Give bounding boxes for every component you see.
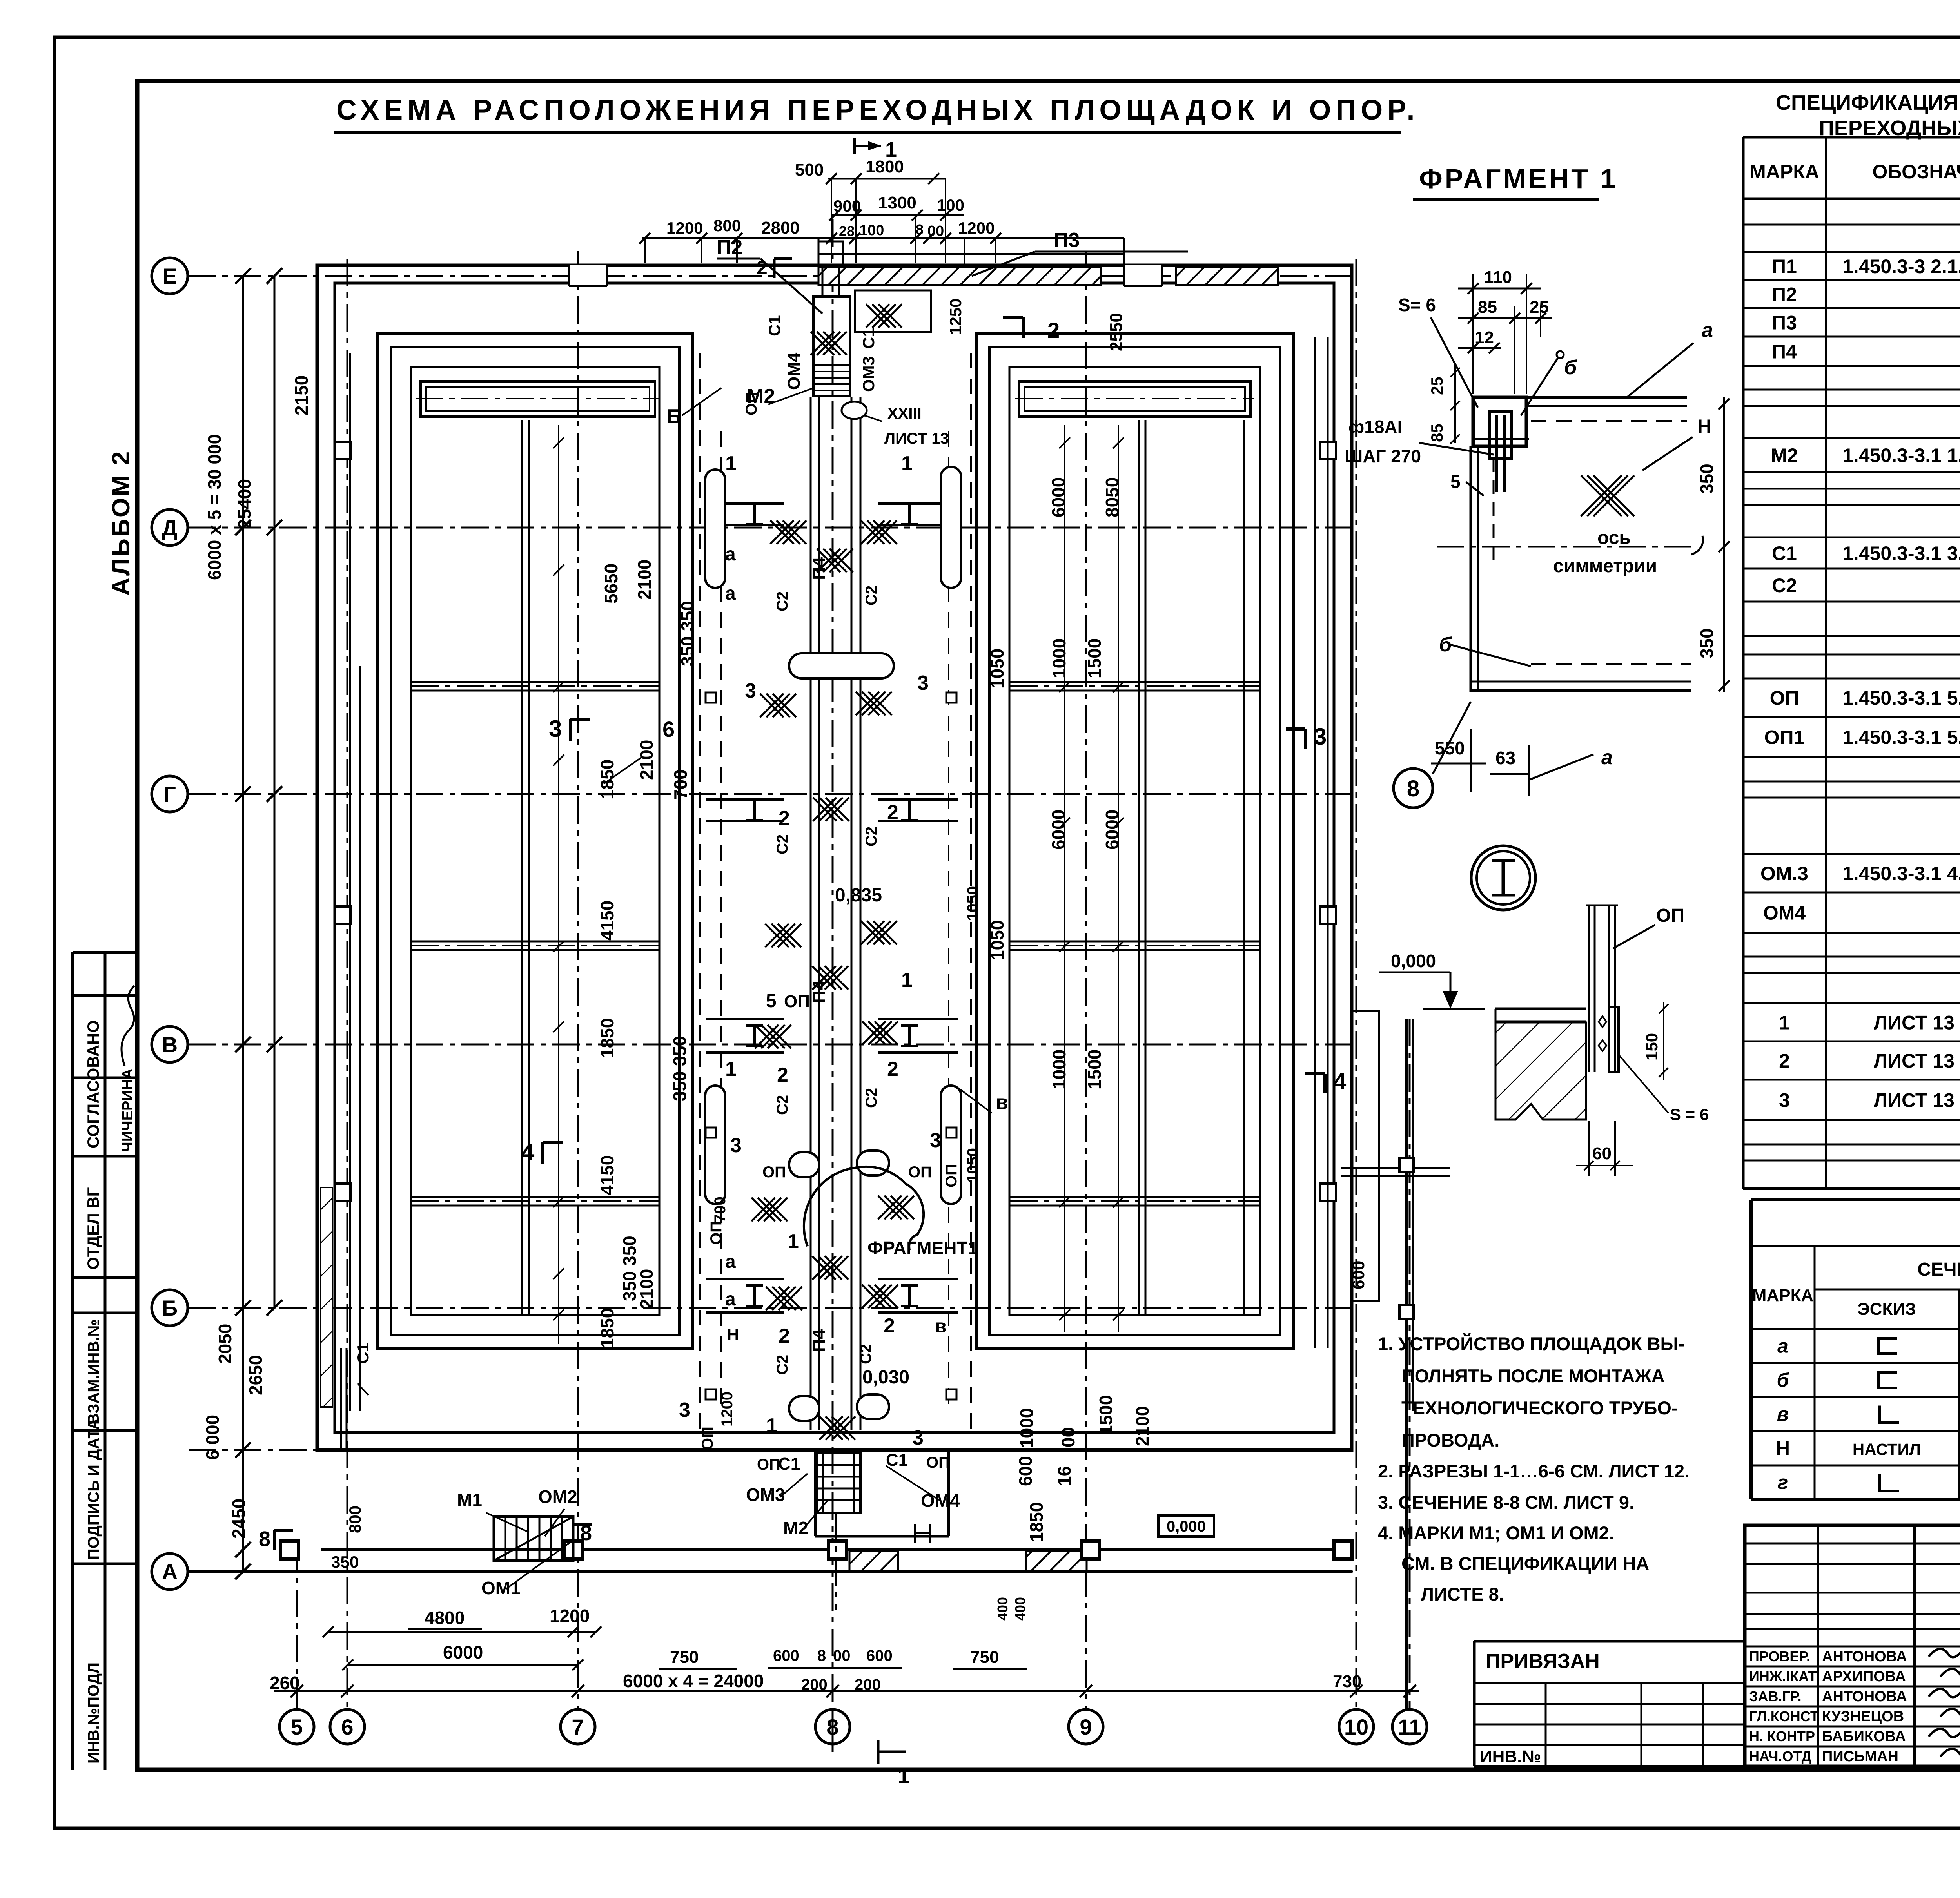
svg-text:730: 730 (1333, 1672, 1361, 1691)
svg-text:Б: Б (666, 405, 681, 428)
svg-text:ФРАГМЕНТ 1: ФРАГМЕНТ 1 (1419, 163, 1618, 194)
svg-text:С2: С2 (863, 827, 880, 847)
svg-text:ВЗАМ.ИНВ.№: ВЗАМ.ИНВ.№ (85, 1319, 102, 1425)
svg-text:а: а (1777, 1335, 1788, 1357)
svg-text:11: 11 (1398, 1715, 1421, 1739)
svg-text:2800: 2800 (761, 218, 800, 237)
svg-text:С2: С2 (863, 1088, 880, 1108)
svg-text:Н: Н (1776, 1438, 1790, 1459)
svg-text:ОМ1: ОМ1 (481, 1578, 521, 1598)
svg-text:ЭСКИЗ: ЭСКИЗ (1857, 1300, 1916, 1319)
svg-text:800: 800 (713, 216, 741, 235)
svg-text:00: 00 (833, 1647, 851, 1664)
svg-text:1200: 1200 (719, 1392, 736, 1427)
svg-text:1: 1 (901, 452, 913, 475)
svg-text:2: 2 (887, 1058, 898, 1080)
svg-text:1050: 1050 (987, 920, 1007, 960)
svg-text:С1: С1 (1772, 542, 1797, 564)
svg-text:а: а (1702, 319, 1713, 342)
svg-text:350: 350 (1697, 464, 1717, 494)
svg-text:600: 600 (773, 1647, 799, 1664)
svg-text:в: в (935, 1316, 947, 1337)
svg-text:25400: 25400 (234, 479, 255, 529)
svg-text:СОГЛАСОВАНО: СОГЛАСОВАНО (84, 1020, 102, 1148)
svg-text:Н: Н (727, 1325, 739, 1344)
svg-text:ОМ.3: ОМ.3 (1760, 863, 1808, 885)
svg-text:1200: 1200 (550, 1606, 590, 1626)
svg-text:С2: С2 (774, 1355, 791, 1375)
svg-text:1850: 1850 (1026, 1502, 1047, 1542)
svg-text:С2: С2 (857, 1344, 875, 1364)
svg-text:800: 800 (346, 1506, 364, 1533)
svg-text:1.450.3-3 2.1.1.0- 04: 1.450.3-3 2.1.1.0- 04 (1842, 256, 1960, 277)
svg-text:ОП: ОП (784, 992, 810, 1011)
svg-text:8050: 8050 (1102, 477, 1122, 517)
svg-text:П3: П3 (1054, 229, 1080, 252)
svg-text:2100: 2100 (1132, 1406, 1152, 1446)
svg-text:350: 350 (677, 636, 698, 666)
svg-text:3: 3 (930, 1129, 941, 1152)
svg-text:60: 60 (1592, 1144, 1612, 1163)
svg-text:ось: ось (1597, 528, 1631, 548)
svg-text:0,835: 0,835 (835, 885, 882, 906)
svg-text:г: г (1778, 1472, 1788, 1494)
svg-text:2550: 2550 (1107, 313, 1126, 351)
svg-text:350: 350 (331, 1553, 359, 1571)
svg-text:ЛИСТ 13: ЛИСТ 13 (1874, 1012, 1955, 1034)
svg-text:ГЛ.КОНСТ: ГЛ.КОНСТ (1749, 1708, 1819, 1724)
svg-text:ОП: ОП (762, 1164, 786, 1181)
svg-text:150: 150 (1642, 1033, 1661, 1060)
svg-text:П2: П2 (717, 236, 742, 259)
svg-text:ОП: ОП (708, 1221, 725, 1245)
svg-text:3. СЕЧЕНИЕ 8-8 СМ. ЛИСТ 9.: 3. СЕЧЕНИЕ 8-8 СМ. ЛИСТ 9. (1378, 1492, 1634, 1513)
svg-text:4: 4 (1333, 1068, 1347, 1095)
svg-text:3: 3 (1779, 1089, 1790, 1111)
svg-text:КУЗНЕЦОВ: КУЗНЕЦОВ (1822, 1708, 1904, 1725)
svg-text:63: 63 (1495, 748, 1515, 768)
svg-text:ОТДЕЛ ВГ: ОТДЕЛ ВГ (84, 1187, 102, 1270)
svg-text:Е: Е (162, 264, 177, 288)
svg-text:8: 8 (259, 1527, 270, 1551)
svg-text:350: 350 (619, 1236, 640, 1266)
svg-text:ИНВ.№ПОДЛ: ИНВ.№ПОДЛ (85, 1662, 102, 1764)
svg-text:С2: С2 (1772, 575, 1797, 596)
svg-text:2: 2 (777, 1064, 788, 1086)
svg-text:1050: 1050 (964, 886, 982, 921)
svg-text:НАСТИЛ: НАСТИЛ (1853, 1440, 1921, 1459)
svg-text:ПРОВЕР.: ПРОВЕР. (1749, 1648, 1810, 1664)
svg-text:ЧИЧЕРИНА: ЧИЧЕРИНА (120, 1068, 136, 1152)
svg-text:350: 350 (670, 1036, 690, 1066)
svg-text:100: 100 (859, 222, 884, 239)
svg-text:2: 2 (1779, 1050, 1790, 1072)
svg-text:1800: 1800 (866, 157, 904, 176)
svg-text:3: 3 (679, 1399, 690, 1421)
svg-text:350: 350 (619, 1271, 640, 1301)
svg-text:1.450.3-3.1 5.1.0.1.0: 1.450.3-3.1 5.1.0.1.0 (1842, 727, 1960, 749)
svg-text:S= 6: S= 6 (1398, 295, 1436, 315)
svg-text:СХЕМА РАСПОЛОЖЕНИЯ ПЕРЕХОДН: СХЕМА РАСПОЛОЖЕНИЯ ПЕРЕХОДНЫХ ПЛОЩАДОК И… (336, 94, 1419, 126)
svg-text:6: 6 (341, 1715, 353, 1739)
svg-text:В: В (162, 1032, 178, 1057)
svg-text:1: 1 (898, 1764, 909, 1788)
svg-text:1000: 1000 (1016, 1408, 1037, 1448)
svg-text:ОП1: ОП1 (1764, 727, 1805, 749)
svg-text:5: 5 (290, 1715, 303, 1739)
svg-text:1: 1 (1779, 1012, 1790, 1034)
svg-text:0,000: 0,000 (1167, 1518, 1206, 1535)
svg-text:500: 500 (795, 160, 824, 179)
svg-text:б: б (1777, 1369, 1790, 1391)
svg-text:б: б (1564, 356, 1577, 379)
svg-text:28: 28 (839, 223, 855, 239)
svg-text:XXIII: XXIII (887, 405, 922, 422)
svg-text:1: 1 (725, 452, 737, 475)
svg-text:700: 700 (670, 769, 691, 799)
svg-text:0,030: 0,030 (862, 1367, 909, 1388)
svg-text:С2: С2 (774, 834, 791, 854)
svg-text:1: 1 (766, 1414, 777, 1437)
svg-text:ПОЛНЯТЬ ПОСЛЕ МОНТАЖА: ПОЛНЯТЬ ПОСЛЕ МОНТАЖА (1401, 1365, 1665, 1386)
svg-text:1850: 1850 (597, 760, 617, 799)
svg-text:2150: 2150 (291, 375, 312, 415)
svg-text:ОМ4: ОМ4 (1763, 902, 1806, 924)
svg-text:б: б (1439, 633, 1452, 656)
svg-text:ТЕХНОЛОГИЧЕСКОГО ТРУБО-: ТЕХНОЛОГИЧЕСКОГО ТРУБО- (1401, 1398, 1678, 1418)
svg-text:00: 00 (1058, 1427, 1078, 1447)
svg-text:4800: 4800 (425, 1608, 465, 1628)
svg-text:ШАГ 270: ШАГ 270 (1345, 446, 1421, 466)
svg-text:ОМ3: ОМ3 (859, 356, 878, 392)
svg-text:ОМ3: ОМ3 (746, 1485, 785, 1505)
svg-text:2050: 2050 (215, 1324, 235, 1364)
svg-text:1500: 1500 (1084, 1050, 1105, 1089)
svg-text:2: 2 (779, 807, 790, 830)
svg-text:МАРКА: МАРКА (1749, 161, 1819, 183)
svg-text:350: 350 (670, 1071, 690, 1101)
svg-text:3: 3 (912, 1427, 924, 1449)
svg-text:А: А (162, 1559, 178, 1584)
svg-text:1000: 1000 (1049, 1050, 1069, 1089)
svg-text:1.450.3-3.1 1.2.1.0.0-03: 1.450.3-3.1 1.2.1.0.0-03 (1842, 444, 1960, 466)
svg-text:3: 3 (730, 1134, 742, 1157)
svg-text:С1: С1 (354, 1343, 372, 1364)
svg-text:ОП: ОП (699, 1427, 716, 1450)
svg-text:ОП: ОП (943, 1164, 960, 1187)
svg-text:ЛИСТ 13: ЛИСТ 13 (1874, 1050, 1955, 1072)
svg-text:7: 7 (572, 1715, 584, 1739)
svg-text:а: а (725, 1251, 736, 1272)
svg-text:350: 350 (1697, 628, 1717, 658)
svg-text:С1: С1 (886, 1450, 908, 1470)
svg-text:ОП: ОП (1770, 687, 1799, 709)
svg-text:Н. КОНТР: Н. КОНТР (1749, 1728, 1815, 1744)
svg-text:1: 1 (901, 969, 913, 992)
svg-text:1300: 1300 (878, 193, 916, 212)
svg-text:750: 750 (970, 1648, 999, 1667)
svg-text:1: 1 (788, 1230, 799, 1253)
svg-text:750: 750 (670, 1648, 699, 1667)
svg-text:400: 400 (1012, 1597, 1028, 1621)
svg-text:П3: П3 (1772, 312, 1797, 334)
svg-text:1000: 1000 (1049, 638, 1069, 678)
svg-text:1.450.3-3.1 4.1.2.1.0: 1.450.3-3.1 4.1.2.1.0 (1842, 863, 1960, 885)
svg-text:а: а (725, 544, 736, 565)
svg-text:ПОДПИСЬ И ДАТА: ПОДПИСЬ И ДАТА (85, 1419, 102, 1560)
svg-text:АНТОНОВА: АНТОНОВА (1822, 1688, 1907, 1705)
svg-text:1200: 1200 (958, 219, 995, 237)
svg-text:ОП: ОП (926, 1454, 950, 1471)
svg-text:85: 85 (1428, 424, 1446, 442)
svg-text:Д: Д (162, 515, 178, 540)
svg-text:6000: 6000 (443, 1642, 483, 1662)
svg-text:260: 260 (270, 1673, 300, 1693)
svg-text:СМ. В СПЕЦИФИКАЦИИ НА: СМ. В СПЕЦИФИКАЦИИ НА (1401, 1553, 1649, 1574)
svg-text:2: 2 (1047, 318, 1060, 343)
svg-text:ЛИСТ 13: ЛИСТ 13 (1874, 1089, 1955, 1111)
svg-text:С2: С2 (863, 586, 880, 605)
svg-text:6000: 6000 (1048, 810, 1069, 850)
svg-text:С1: С1 (778, 1454, 800, 1474)
svg-text:2: 2 (884, 1314, 895, 1337)
svg-text:ПРОВОДА.: ПРОВОДА. (1401, 1430, 1499, 1450)
svg-text:4. МАРКИ М1; ОМ1 И ОМ2.: 4. МАРКИ М1; ОМ1 И ОМ2. (1378, 1523, 1614, 1543)
svg-text:М2: М2 (1771, 444, 1798, 466)
svg-text:1500: 1500 (1096, 1395, 1116, 1435)
svg-text:5: 5 (766, 991, 777, 1012)
svg-text:ПРИВЯЗАН: ПРИВЯЗАН (1486, 1650, 1600, 1673)
svg-text:10: 10 (1344, 1715, 1368, 1739)
svg-text:6: 6 (662, 717, 675, 741)
svg-text:1050: 1050 (964, 1148, 982, 1183)
svg-text:400: 400 (995, 1597, 1011, 1621)
svg-text:8: 8 (817, 1647, 826, 1664)
svg-text:110: 110 (1484, 268, 1512, 287)
svg-text:СПЕЦИФИКАЦИЯ К СХЕМЕ РАСП: СПЕЦИФИКАЦИЯ К СХЕМЕ РАСПОЛОЖЕНИЯ (1776, 91, 1960, 114)
svg-text:1250: 1250 (946, 299, 965, 335)
svg-text:4: 4 (521, 1139, 535, 1165)
svg-text:8: 8 (916, 221, 924, 237)
svg-text:а: а (725, 1289, 736, 1310)
svg-text:100: 100 (937, 196, 964, 214)
svg-text:200: 200 (855, 1676, 881, 1693)
svg-text:М1: М1 (457, 1490, 482, 1510)
svg-text:а: а (725, 583, 736, 604)
svg-text:Г: Г (163, 782, 176, 807)
svg-text:П4: П4 (809, 1329, 829, 1352)
svg-text:25: 25 (1428, 377, 1446, 395)
svg-text:С1: С1 (765, 315, 784, 336)
svg-text:ОП: ОП (1656, 905, 1684, 926)
svg-text:ФРАГМЕНТ1: ФРАГМЕНТ1 (867, 1238, 978, 1258)
svg-text:1.450.3-3.1 5.1.0.1.0-13: 1.450.3-3.1 5.1.0.1.0-13 (1842, 687, 1960, 709)
svg-text:700: 700 (711, 1196, 729, 1223)
svg-text:П2: П2 (1772, 284, 1797, 306)
svg-text:1200: 1200 (666, 219, 703, 237)
svg-text:в: в (996, 1091, 1008, 1114)
svg-text:12: 12 (1475, 328, 1494, 347)
svg-text:БАБИКОВА: БАБИКОВА (1822, 1728, 1906, 1745)
svg-text:4150: 4150 (597, 901, 617, 941)
svg-text:1850: 1850 (597, 1308, 617, 1348)
svg-text:6 000: 6 000 (202, 1415, 223, 1460)
svg-text:НАЧ.ОТД: НАЧ.ОТД (1749, 1748, 1811, 1764)
svg-text:1500: 1500 (1084, 638, 1105, 678)
svg-text:АНТОНОВА: АНТОНОВА (1822, 1648, 1907, 1665)
svg-text:ОБОЗНАЧЕНИЕ: ОБОЗНАЧЕНИЕ (1872, 161, 1960, 183)
svg-text:600: 600 (1015, 1456, 1036, 1486)
svg-text:2: 2 (887, 801, 898, 824)
svg-text:1050: 1050 (987, 649, 1007, 689)
svg-text:АЛЬБОМ 2: АЛЬБОМ 2 (107, 450, 135, 596)
svg-text:3: 3 (745, 680, 756, 702)
svg-text:1850: 1850 (597, 1018, 617, 1058)
svg-text:ИНВ.№: ИНВ.№ (1480, 1747, 1541, 1766)
svg-text:2: 2 (757, 257, 768, 279)
svg-text:1. УСТРОЙСТВО ПЛОЩАДОК ВЫ-: 1. УСТРОЙСТВО ПЛОЩАДОК ВЫ- (1378, 1333, 1684, 1354)
svg-text:2: 2 (779, 1325, 790, 1347)
svg-text:3: 3 (917, 672, 929, 694)
svg-text:ОП: ОП (757, 1456, 780, 1473)
svg-text:6000: 6000 (1102, 810, 1122, 850)
svg-text:П4: П4 (809, 557, 829, 580)
svg-text:С1: С1 (859, 328, 878, 349)
svg-text:25: 25 (1530, 297, 1549, 317)
svg-text:МАРКА: МАРКА (1752, 1286, 1813, 1305)
svg-text:1.450.3-3.1 3.1.0.1.0: 1.450.3-3.1 3.1.0.1.0 (1842, 542, 1960, 564)
svg-text:ОМ2: ОМ2 (538, 1486, 577, 1507)
svg-text:6000 х 5 = 30 000: 6000 х 5 = 30 000 (204, 434, 225, 580)
svg-text:симметрии: симметрии (1553, 556, 1657, 576)
svg-text:ЛИСТЕ 8.: ЛИСТЕ 8. (1421, 1584, 1504, 1604)
svg-text:Б: Б (162, 1296, 178, 1320)
svg-text:ИНЖ.IКАТ: ИНЖ.IКАТ (1749, 1668, 1817, 1684)
svg-text:ПИСЬМАН: ПИСЬМАН (1822, 1748, 1898, 1765)
svg-text:СЕЧЕНИЕ: СЕЧЕНИЕ (1917, 1259, 1960, 1280)
svg-text:8: 8 (1407, 776, 1419, 801)
svg-text:ЗАВ.ГР.: ЗАВ.ГР. (1749, 1688, 1802, 1704)
svg-text:2100: 2100 (634, 560, 655, 600)
svg-text:6000 х 4 = 24000: 6000 х 4 = 24000 (623, 1671, 764, 1691)
svg-text:3: 3 (1314, 723, 1327, 750)
svg-text:00: 00 (927, 223, 944, 239)
svg-text:2. РАЗРЕЗЫ 1-1…6-6 СМ. ЛИСТ 12: 2. РАЗРЕЗЫ 1-1…6-6 СМ. ЛИСТ 12. (1378, 1461, 1690, 1481)
svg-text:АРХИПОВА: АРХИПОВА (1822, 1668, 1906, 1685)
svg-text:С2: С2 (774, 591, 791, 611)
svg-text:3: 3 (549, 716, 562, 742)
svg-text:5650: 5650 (601, 564, 621, 604)
svg-text:2450: 2450 (229, 1499, 249, 1539)
svg-text:600: 600 (866, 1647, 893, 1664)
svg-text:9: 9 (1080, 1715, 1092, 1739)
svg-text:S = 6: S = 6 (1670, 1105, 1709, 1124)
svg-text:П4: П4 (1772, 341, 1797, 363)
svg-text:5: 5 (1450, 471, 1461, 492)
svg-text:С2: С2 (774, 1095, 791, 1115)
svg-text:Н: Н (1697, 415, 1711, 437)
svg-text:ЛИСТ 13: ЛИСТ 13 (884, 430, 949, 447)
svg-text:а: а (1601, 746, 1613, 769)
svg-text:1: 1 (725, 1058, 737, 1080)
svg-text:4150: 4150 (597, 1155, 617, 1195)
svg-text:ОМ4: ОМ4 (784, 352, 804, 390)
svg-text:ОП: ОП (908, 1164, 932, 1181)
svg-text:П1: П1 (1772, 256, 1797, 277)
svg-text:0,000: 0,000 (1391, 951, 1436, 971)
svg-text:200: 200 (801, 1676, 828, 1693)
svg-text:ф18АI: ф18АI (1348, 417, 1402, 437)
svg-text:16: 16 (1054, 1466, 1074, 1486)
svg-text:85: 85 (1478, 297, 1497, 317)
svg-text:в: в (1777, 1403, 1789, 1425)
svg-text:П4: П4 (809, 980, 829, 1003)
svg-text:2650: 2650 (245, 1355, 266, 1395)
svg-text:6000: 6000 (1048, 477, 1069, 517)
svg-text:350: 350 (677, 601, 698, 631)
